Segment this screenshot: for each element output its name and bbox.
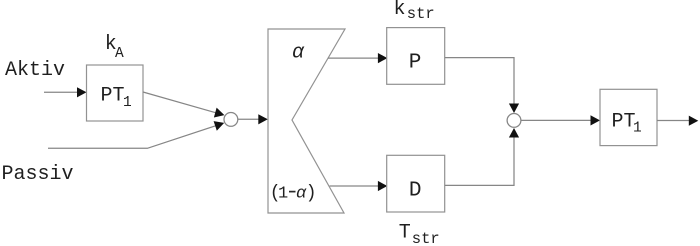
wire Passiv to summing junction <box>48 126 216 149</box>
wire summing junction 2 to PT1 right <box>521 119 592 121</box>
wire D output to summing junction 2 <box>445 137 514 186</box>
summing junction 1 <box>224 113 238 127</box>
svg-text:k: k <box>394 0 406 21</box>
label kstr <box>394 0 435 23</box>
svg-text:Passiv: Passiv <box>2 163 74 186</box>
block D <box>387 155 445 212</box>
block PT1 (left) <box>87 65 144 121</box>
svg-text:A: A <box>115 46 124 62</box>
block P <box>387 28 445 85</box>
svg-text:T: T <box>399 221 411 244</box>
wire splitter to D <box>330 185 379 187</box>
svg-text:α: α <box>292 42 305 65</box>
svg-text:str: str <box>407 5 435 23</box>
svg-text:1: 1 <box>633 121 642 137</box>
svg-text:PT: PT <box>101 85 125 108</box>
summing junction 2 <box>507 114 521 128</box>
label Tstr <box>399 221 440 246</box>
wire output arrow <box>657 120 689 122</box>
svg-text:Aktiv: Aktiv <box>5 59 65 82</box>
wire P output to summing junction 2 <box>445 58 514 105</box>
svg-text:P: P <box>409 51 422 74</box>
svg-text:D: D <box>409 179 422 202</box>
svg-text:1: 1 <box>123 95 132 111</box>
wire PT1 output to summing junction <box>143 92 216 113</box>
wire splitter to P <box>328 57 379 59</box>
wire Aktiv input arrow <box>44 91 78 93</box>
splitter block (alpha / 1-alpha) <box>268 29 345 213</box>
label kA <box>105 33 124 62</box>
wire summing junction to splitter <box>238 118 259 120</box>
svg-text:): ) <box>306 184 317 204</box>
svg-text:str: str <box>412 230 440 246</box>
svg-text:PT: PT <box>612 110 636 133</box>
svg-text:1: 1 <box>278 185 288 204</box>
block PT1 (right) <box>600 89 657 145</box>
